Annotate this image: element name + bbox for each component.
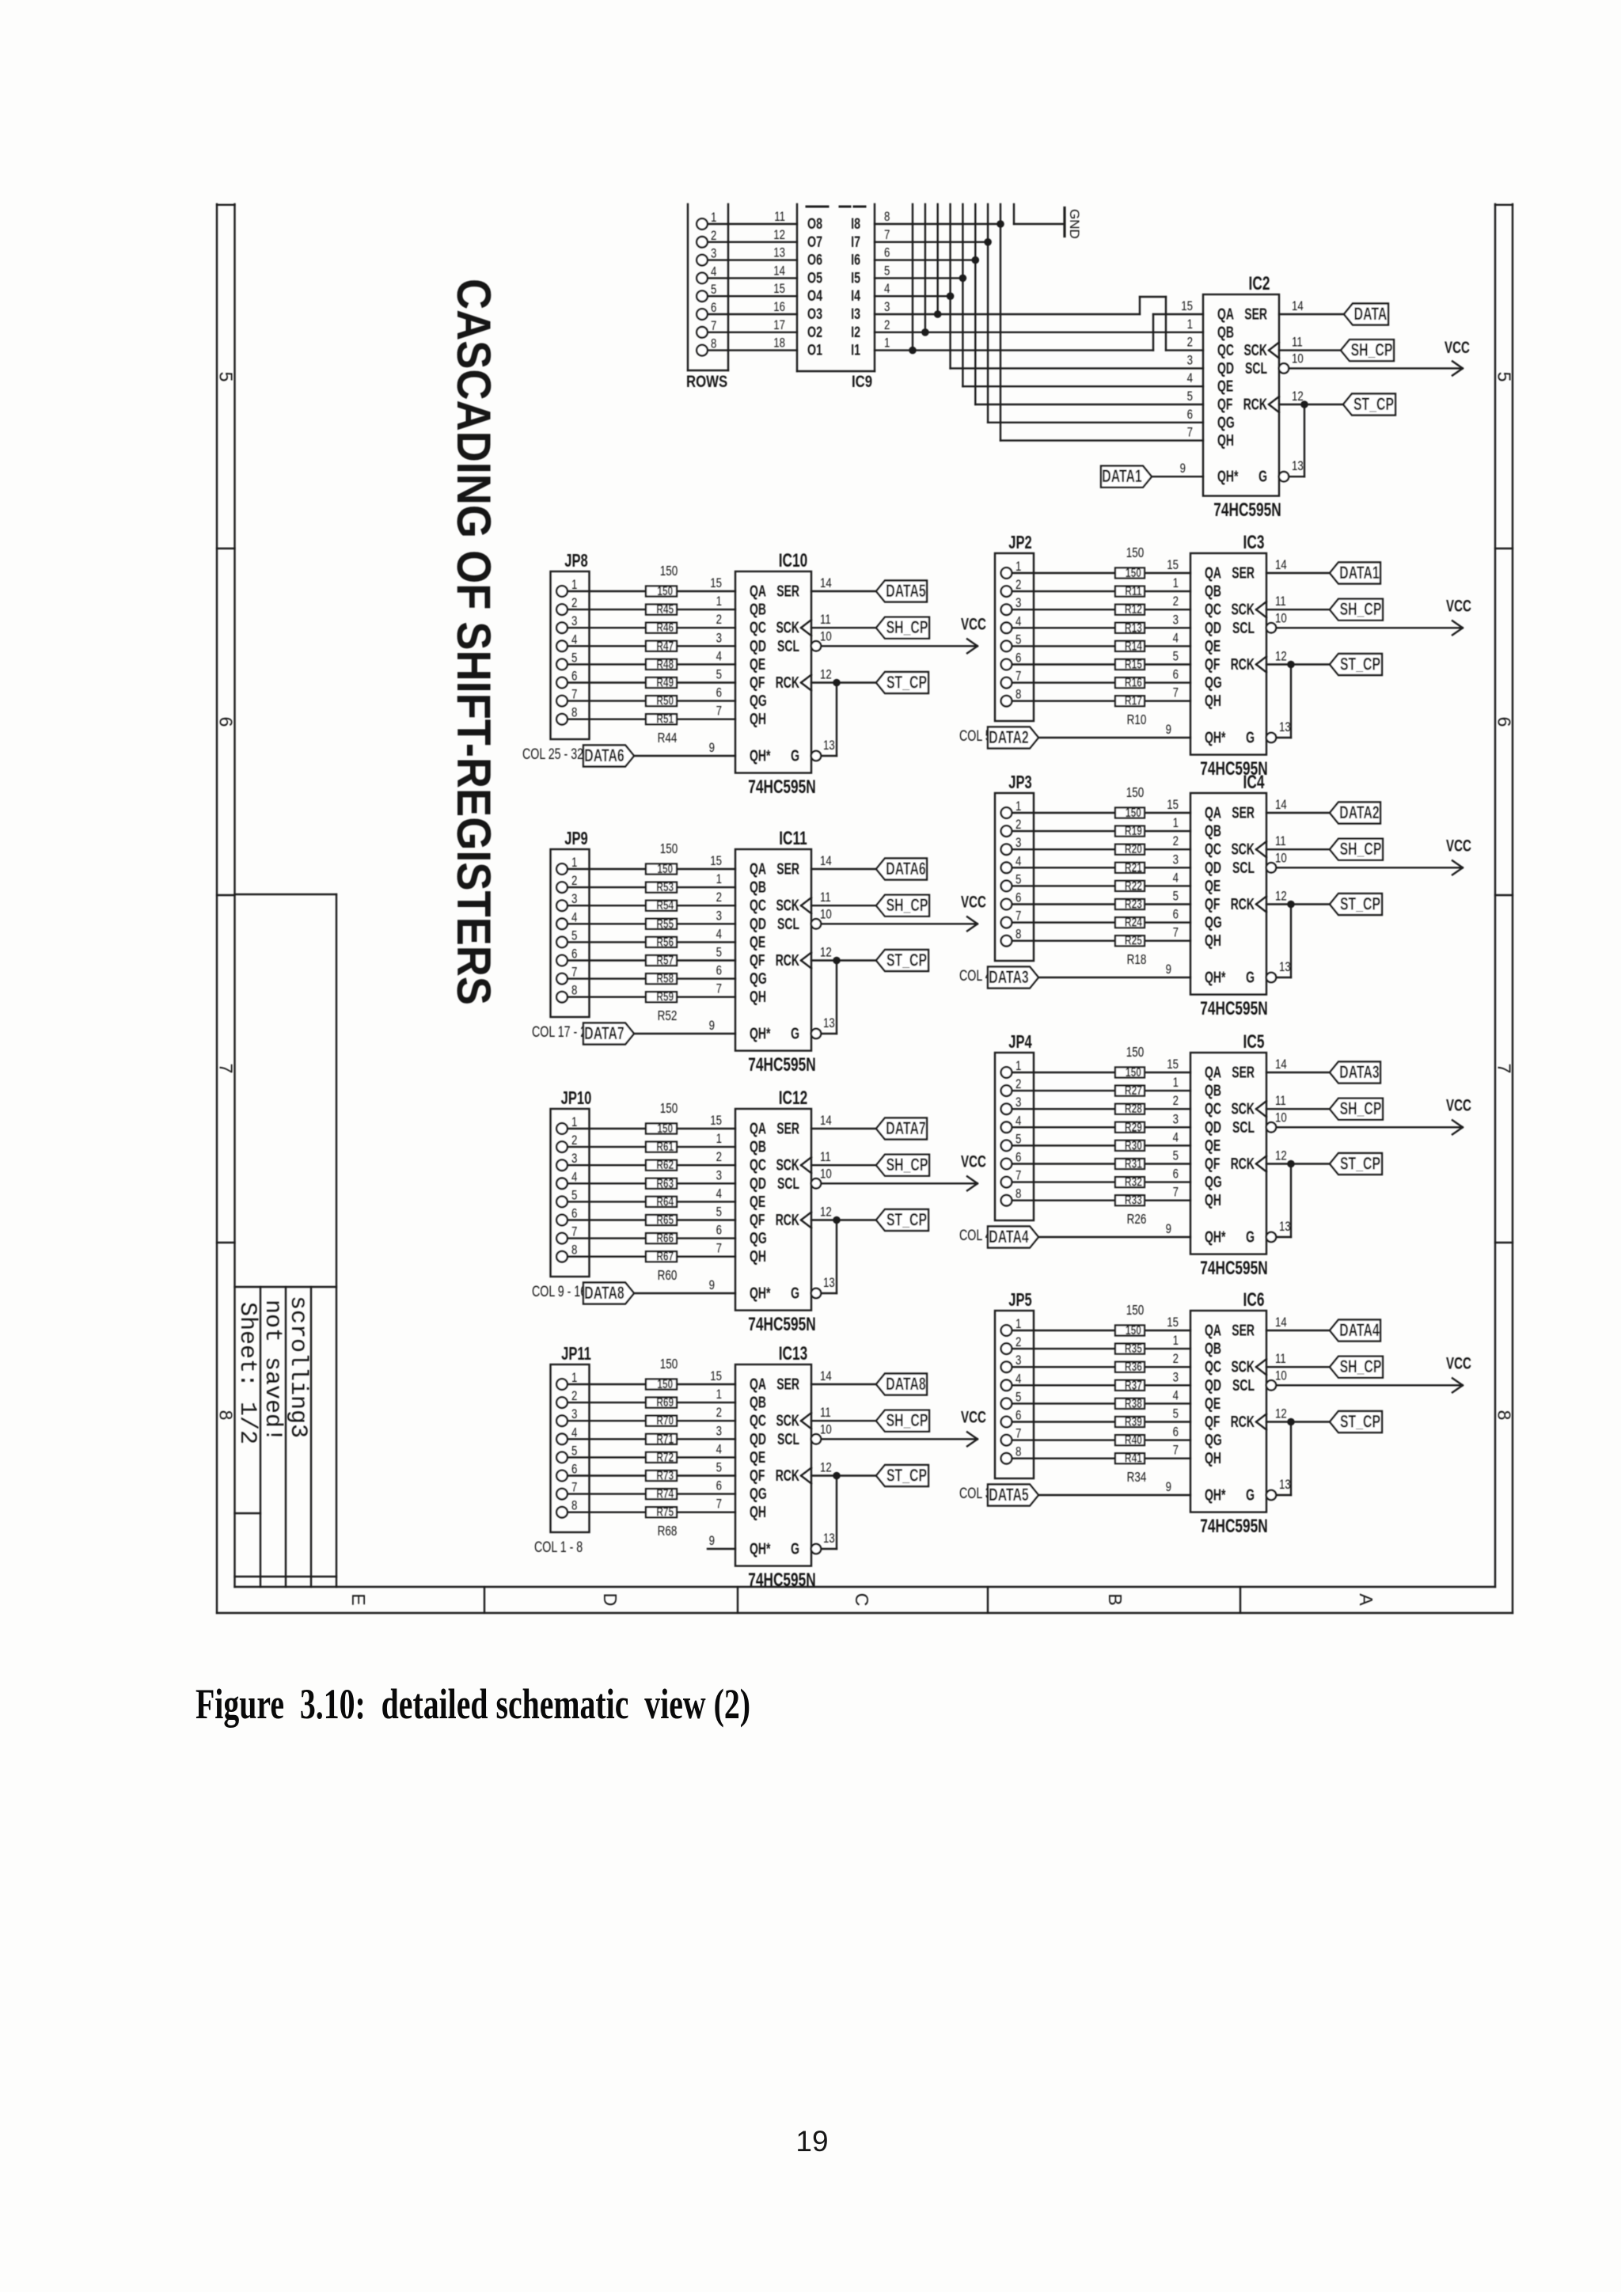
svg-text:1: 1 <box>716 872 722 887</box>
wire IC11 pin12 to pin13 G <box>811 961 837 1039</box>
label COL 17 - 24 <box>532 1023 593 1040</box>
svg-text:QE: QE <box>750 1448 765 1466</box>
wire IC5.SER to DATA3 <box>1266 1057 1330 1072</box>
svg-text:R75: R75 <box>656 1505 674 1519</box>
wire JP9.6 to IC11 input 6 <box>568 959 735 961</box>
svg-text:18: 18 <box>773 336 785 351</box>
wire IC9 pin2 net row2 to IC2.QB <box>875 332 1203 333</box>
svg-text:6: 6 <box>1015 1150 1021 1165</box>
svg-text:15: 15 <box>1181 299 1193 314</box>
svg-text:SH_CP: SH_CP <box>1340 1358 1382 1377</box>
svg-text:R55: R55 <box>656 917 674 931</box>
svg-text:14: 14 <box>820 576 832 591</box>
svg-text:R47: R47 <box>656 639 674 653</box>
svg-text:R48: R48 <box>656 657 674 671</box>
svg-text:R71: R71 <box>656 1432 674 1446</box>
resistor R69 <box>646 1395 677 1409</box>
svg-text:5: 5 <box>884 264 890 279</box>
svg-text:4: 4 <box>716 649 723 664</box>
svg-text:3: 3 <box>711 246 716 261</box>
flag SH_CP IC6 <box>1330 1357 1383 1378</box>
wire IC13 pin12 to pin13 G <box>811 1476 837 1554</box>
flag SH_CP IC12 <box>876 1155 929 1176</box>
wire JP11.2 to IC13 input 2 <box>568 1402 735 1403</box>
wire vertical bus row3 <box>936 204 938 314</box>
svg-text:6: 6 <box>711 301 716 316</box>
svg-text:scrolling3: scrolling3 <box>284 1296 311 1438</box>
resistor R60 <box>646 1121 677 1135</box>
wire vertical bus row2 <box>924 204 926 332</box>
svg-text:2: 2 <box>1015 578 1021 593</box>
flag SH_CP <box>1341 340 1394 361</box>
wire IC9 pin8 net row8 <box>875 223 1000 225</box>
wire JP4.1 to IC5 input 1 <box>1012 1072 1191 1073</box>
svg-text:150: 150 <box>1126 565 1141 579</box>
svg-text:G: G <box>791 1539 799 1558</box>
svg-text:9: 9 <box>709 1534 715 1549</box>
svg-text:QA: QA <box>1205 564 1221 582</box>
svg-text:2: 2 <box>716 890 722 905</box>
wire IC2.SCL pin10 to VCC <box>1279 351 1461 374</box>
svg-text:4: 4 <box>711 264 717 279</box>
resistor R13 <box>1115 620 1145 635</box>
flag DATA5 <box>876 581 927 602</box>
svg-text:R19: R19 <box>1125 823 1142 837</box>
wire IC10 pin12 to pin13 G <box>811 683 837 761</box>
svg-text:6: 6 <box>1015 651 1021 666</box>
svg-text:6: 6 <box>716 1223 722 1238</box>
svg-text:5: 5 <box>716 1205 722 1220</box>
svg-text:I3: I3 <box>851 306 860 322</box>
svg-text:6: 6 <box>571 947 577 962</box>
junction IC6 pin12 <box>1287 1418 1295 1426</box>
svg-text:5: 5 <box>1173 1148 1179 1163</box>
wire JP9.8 to IC11 input 8 <box>568 996 735 997</box>
wire JP4.4 to IC5 input 4 <box>1012 1126 1191 1128</box>
svg-text:2: 2 <box>1015 1335 1021 1350</box>
svg-text:R58: R58 <box>656 971 674 985</box>
frame column label A <box>1356 1593 1376 1606</box>
svg-text:1: 1 <box>1173 576 1179 591</box>
flag ST_CP IC11 <box>876 950 928 971</box>
svg-text:QE: QE <box>750 655 765 673</box>
resistor R54 <box>646 898 677 912</box>
svg-text:DATA4: DATA4 <box>1339 1322 1380 1341</box>
wire JP11.3 to IC13 input 3 <box>568 1420 735 1421</box>
svg-text:ST_CP: ST_CP <box>1340 1155 1380 1174</box>
svg-text:150: 150 <box>660 1101 678 1116</box>
resistor R10 <box>1115 565 1145 579</box>
ic IC5 74HC595N <box>1166 1031 1268 1278</box>
svg-text:1: 1 <box>571 1371 577 1386</box>
wire IC6.SER to DATA4 <box>1266 1315 1330 1330</box>
ic IC10 74HC595N <box>709 550 816 797</box>
flag ST_CP IC12 <box>876 1209 928 1231</box>
resistor R51 <box>646 712 677 726</box>
svg-text:2: 2 <box>716 613 722 628</box>
svg-text:8: 8 <box>571 983 577 998</box>
connector JP10 <box>551 1088 592 1277</box>
svg-text:R35: R35 <box>1125 1341 1142 1355</box>
svg-text:6: 6 <box>1015 1408 1021 1423</box>
svg-text:R27: R27 <box>1125 1083 1142 1097</box>
svg-text:R38: R38 <box>1125 1396 1142 1410</box>
svg-text:14: 14 <box>1275 1057 1287 1072</box>
svg-text:SH_CP: SH_CP <box>1340 841 1382 860</box>
svg-text:R29: R29 <box>1125 1120 1142 1134</box>
svg-text:7: 7 <box>1173 1185 1179 1200</box>
frame inner border <box>235 204 1496 1587</box>
resistor R44 <box>646 583 677 598</box>
resistor R59 <box>646 989 677 1004</box>
svg-text:11: 11 <box>774 210 785 225</box>
resistor R17 <box>1115 693 1145 708</box>
svg-text:2: 2 <box>1173 1094 1179 1109</box>
svg-text:8: 8 <box>571 1243 577 1258</box>
svg-text:SH_CP: SH_CP <box>886 897 928 916</box>
svg-text:G: G <box>791 1024 799 1042</box>
svg-text:QH: QH <box>750 1247 766 1266</box>
resistor R57 <box>646 953 677 967</box>
label resistor network value 150 <box>1126 1303 1145 1318</box>
svg-text:R60: R60 <box>658 1268 678 1283</box>
wire JP11.4 to IC13 input 4 <box>568 1438 735 1440</box>
svg-text:R39: R39 <box>1125 1414 1142 1429</box>
svg-text:R68: R68 <box>658 1524 678 1539</box>
svg-text:9: 9 <box>1180 461 1186 476</box>
resistor R27 <box>1115 1083 1145 1097</box>
svg-text:5: 5 <box>216 372 237 382</box>
svg-text:JP5: JP5 <box>1008 1290 1031 1310</box>
svg-text:R51: R51 <box>656 712 674 726</box>
svg-text:SCL: SCL <box>777 1429 799 1448</box>
svg-text:QA: QA <box>750 1119 766 1137</box>
junction IC13 pin12 <box>833 1472 841 1480</box>
junction row6 <box>972 256 980 264</box>
resistor R22 <box>1115 879 1145 893</box>
svg-text:QD: QD <box>750 914 766 932</box>
svg-text:SCK: SCK <box>776 618 799 636</box>
resistor R67 <box>646 1249 677 1263</box>
wire JP8.4 to IC10 input 4 <box>568 645 735 647</box>
svg-text:74HC595N: 74HC595N <box>748 776 815 797</box>
resistor R71 <box>646 1432 677 1446</box>
svg-text:ST_CP: ST_CP <box>1340 895 1380 914</box>
ic IC11 74HC595N <box>709 828 816 1075</box>
svg-text:DATA1: DATA1 <box>1339 564 1380 583</box>
svg-text:QE: QE <box>750 1192 765 1210</box>
svg-text:1: 1 <box>1015 560 1021 575</box>
junction row3 <box>934 310 942 318</box>
svg-text:DATA7: DATA7 <box>584 1025 624 1044</box>
svg-text:R12: R12 <box>1125 602 1142 616</box>
svg-text:4: 4 <box>1015 614 1022 629</box>
svg-text:QE: QE <box>750 932 765 951</box>
svg-text:I6: I6 <box>851 252 860 268</box>
svg-text:150: 150 <box>657 583 673 598</box>
frame column label C <box>852 1593 872 1607</box>
wire JP8.7 to IC10 input 7 <box>568 700 735 701</box>
wire IC6.SCL pin10 to VCC <box>1266 1368 1461 1391</box>
svg-text:R62: R62 <box>656 1157 674 1171</box>
svg-text:R44: R44 <box>658 731 678 746</box>
resistor R47 <box>646 639 677 653</box>
svg-text:QF: QF <box>750 1210 765 1228</box>
svg-text:8: 8 <box>1015 687 1021 702</box>
svg-text:QF: QF <box>1205 894 1220 913</box>
svg-text:8: 8 <box>1015 1186 1021 1201</box>
svg-text:QB: QB <box>1205 1081 1221 1099</box>
connector JP8 <box>551 551 590 739</box>
svg-text:2: 2 <box>1173 594 1179 609</box>
svg-text:150: 150 <box>1126 545 1145 560</box>
flag SH_CP IC5 <box>1330 1099 1383 1120</box>
svg-text:11: 11 <box>1275 594 1286 609</box>
wire DATA2 to IC3.QH* <box>1038 737 1190 738</box>
svg-text:R16: R16 <box>1125 675 1142 689</box>
svg-text:QB: QB <box>1205 582 1221 600</box>
flag DATA2 <box>1330 803 1380 824</box>
svg-text:9: 9 <box>709 1019 715 1034</box>
svg-text:150: 150 <box>1126 805 1141 819</box>
wire IC9 pin4 net row4 <box>875 295 951 297</box>
resistor R31 <box>1115 1156 1145 1171</box>
svg-text:I5: I5 <box>851 269 860 286</box>
svg-text:3: 3 <box>571 614 577 629</box>
ic IC3 74HC595N <box>1166 532 1268 779</box>
svg-text:13: 13 <box>823 1531 835 1546</box>
resistor R58 <box>646 971 677 985</box>
wire JP10.3 to IC12 input 3 <box>568 1164 735 1166</box>
svg-text:QF: QF <box>750 951 765 969</box>
svg-text:5: 5 <box>1015 632 1021 647</box>
wire IC6 pin12 to pin13 G <box>1266 1422 1291 1501</box>
svg-text:SCL: SCL <box>777 636 799 655</box>
svg-text:JP10: JP10 <box>561 1088 592 1108</box>
wire DATA7 to IC11.QH* <box>634 1033 735 1034</box>
svg-text:6: 6 <box>1187 407 1193 422</box>
resistor R35 <box>1115 1341 1145 1355</box>
svg-text:QD: QD <box>1205 618 1221 636</box>
svg-text:R34: R34 <box>1127 1470 1147 1485</box>
svg-text:COL 1 - 8: COL 1 - 8 <box>534 1539 583 1555</box>
svg-text:QC: QC <box>750 1411 766 1429</box>
flag DATA4 <box>988 1227 1038 1248</box>
svg-text:14: 14 <box>820 854 832 869</box>
wire JP5.4 to IC6 input 4 <box>1012 1384 1191 1386</box>
wire JP4.5 to IC5 input 5 <box>1012 1144 1191 1146</box>
svg-text:R22: R22 <box>1125 879 1142 893</box>
wire JP4.8 to IC5 input 8 <box>1012 1199 1191 1201</box>
wire JP8.6 to IC10 input 6 <box>568 681 735 683</box>
frame row label 8 left <box>216 1410 237 1421</box>
svg-text:QA: QA <box>750 860 766 878</box>
wire JP3.7 to IC4 input 7 <box>1012 921 1191 923</box>
svg-text:SCK: SCK <box>1231 1357 1255 1376</box>
label resistor network name R68 <box>658 1524 678 1539</box>
svg-text:SCL: SCL <box>1232 1376 1255 1394</box>
svg-text:6: 6 <box>1015 890 1021 905</box>
resistor R29 <box>1115 1120 1145 1134</box>
svg-text:G: G <box>1246 1228 1255 1246</box>
svg-text:R52: R52 <box>658 1008 678 1023</box>
wire IC2.RCK to ST_CP <box>1279 389 1343 404</box>
svg-text:O3: O3 <box>807 306 822 322</box>
resistor R39 <box>1115 1414 1145 1429</box>
svg-text:IC6: IC6 <box>1243 1289 1265 1310</box>
svg-text:5: 5 <box>571 928 577 943</box>
junction row2 <box>921 328 929 336</box>
svg-text:14: 14 <box>773 264 785 279</box>
svg-text:10: 10 <box>1275 1110 1287 1125</box>
svg-text:10: 10 <box>820 1422 832 1437</box>
svg-text:8: 8 <box>711 336 716 351</box>
svg-text:3: 3 <box>1173 852 1179 867</box>
svg-text:9: 9 <box>1166 1480 1171 1495</box>
svg-text:11: 11 <box>820 890 831 905</box>
svg-text:DATA4: DATA4 <box>989 1228 1029 1247</box>
resistor R70 <box>646 1413 677 1427</box>
svg-text:SER: SER <box>1232 1321 1255 1339</box>
svg-text:8: 8 <box>571 705 577 720</box>
svg-text:3: 3 <box>571 1152 577 1167</box>
frame row label 6 right <box>1494 717 1515 727</box>
resistor R36 <box>1115 1359 1145 1373</box>
svg-text:R57: R57 <box>656 953 674 967</box>
svg-text:7: 7 <box>216 1064 237 1074</box>
svg-text:QG: QG <box>1217 413 1235 431</box>
wire stub IC13.QH* pin9 <box>708 1548 735 1550</box>
svg-text:R23: R23 <box>1125 897 1142 911</box>
svg-text:15: 15 <box>710 854 722 869</box>
resistor R15 <box>1115 657 1145 671</box>
svg-text:5: 5 <box>716 667 722 682</box>
label COL 25 - 32 <box>522 746 583 762</box>
wire vertical bus row5 to IC2 pin 4 <box>962 204 1203 386</box>
svg-text:DATA3: DATA3 <box>1339 1064 1379 1083</box>
wire JP2.3 to IC3 input 3 <box>1012 609 1191 610</box>
svg-text:RCK: RCK <box>1243 395 1268 413</box>
svg-text:13: 13 <box>773 245 785 260</box>
svg-text:12: 12 <box>820 945 832 960</box>
wire JP2.7 to IC3 input 7 <box>1012 681 1191 683</box>
svg-text:5: 5 <box>1187 389 1193 404</box>
svg-text:SCK: SCK <box>1231 840 1255 858</box>
resistor R74 <box>646 1486 677 1501</box>
svg-text:QF: QF <box>750 1466 765 1484</box>
svg-text:74HC595N: 74HC595N <box>1213 499 1281 520</box>
svg-text:QD: QD <box>750 1429 766 1448</box>
flag DATA8 <box>876 1374 927 1395</box>
junction IC11 pin12 <box>833 957 841 965</box>
wire IC13.RCK to ST_CP <box>811 1460 876 1475</box>
svg-text:4: 4 <box>1173 631 1179 646</box>
svg-text:VCC: VCC <box>961 892 986 911</box>
label resistor network value 150 <box>1126 545 1145 560</box>
svg-text:5: 5 <box>1173 889 1179 904</box>
svg-text:VCC: VCC <box>1446 836 1471 855</box>
wire JP5.5 to IC6 input 5 <box>1012 1402 1191 1404</box>
wire IC9 pin7 net row7 <box>875 241 988 243</box>
svg-text:SER: SER <box>776 1375 799 1393</box>
resistor R63 <box>646 1176 677 1190</box>
wire IC9 pin1 net row1 to IC2.QA with jog <box>875 314 1203 351</box>
svg-text:QF: QF <box>1205 1412 1220 1430</box>
wire IC9 pin3 net row3 to IC2.QC with jog <box>875 297 1203 351</box>
wire JP8.5 to IC10 input 5 <box>568 663 735 665</box>
svg-text:3: 3 <box>1187 353 1193 368</box>
wire JP2.1 to IC3 input 1 <box>1012 572 1191 574</box>
svg-text:6: 6 <box>1173 1425 1179 1440</box>
wire IC4.RCK to ST_CP <box>1266 889 1330 904</box>
svg-text:1: 1 <box>571 1115 577 1130</box>
svg-text:74HC595N: 74HC595N <box>1200 998 1267 1019</box>
svg-text:QG: QG <box>1205 674 1222 692</box>
svg-text:6: 6 <box>1173 667 1179 682</box>
svg-text:R74: R74 <box>656 1486 674 1501</box>
wire JP3.6 to IC4 input 6 <box>1012 903 1191 905</box>
svg-text:10: 10 <box>1292 351 1304 366</box>
label COL 49 - 56 <box>959 967 1020 984</box>
flag DATA2 <box>988 727 1038 749</box>
svg-text:4: 4 <box>716 927 723 942</box>
svg-text:10: 10 <box>820 629 832 644</box>
wire IC3.SCK to SH_CP <box>1266 594 1330 609</box>
svg-text:3: 3 <box>1173 1112 1179 1127</box>
connector JP2 <box>995 533 1034 721</box>
svg-text:JP11: JP11 <box>561 1344 591 1364</box>
svg-text:4: 4 <box>571 1170 578 1185</box>
svg-text:R65: R65 <box>656 1213 674 1227</box>
svg-text:D: D <box>600 1593 621 1607</box>
wire vertical bus row8 to IC2 pin 7 <box>1000 204 1203 441</box>
svg-text:R33: R33 <box>1125 1193 1142 1207</box>
svg-text:5: 5 <box>1173 1406 1179 1421</box>
svg-text:5: 5 <box>1015 872 1021 887</box>
svg-text:150: 150 <box>660 1357 678 1372</box>
svg-text:QB: QB <box>1217 323 1234 341</box>
resistor R56 <box>646 935 677 949</box>
svg-text:1: 1 <box>716 1387 722 1402</box>
svg-text:2: 2 <box>571 874 577 889</box>
svg-text:1: 1 <box>1015 799 1021 814</box>
svg-text:R26: R26 <box>1127 1212 1147 1227</box>
svg-text:17: 17 <box>773 317 785 332</box>
svg-text:150: 150 <box>1126 785 1145 800</box>
wire IC10.SER to DATA5 <box>811 576 876 591</box>
svg-text:not saved!: not saved! <box>259 1300 286 1442</box>
svg-text:DATA7: DATA7 <box>886 1120 925 1139</box>
svg-text:R40: R40 <box>1125 1433 1142 1447</box>
svg-text:1: 1 <box>1173 1076 1179 1091</box>
wire JP9.3 to IC11 input 3 <box>568 905 735 906</box>
svg-text:4: 4 <box>1173 1388 1179 1403</box>
wire IC5.RCK to ST_CP <box>1266 1148 1330 1163</box>
svg-text:5: 5 <box>716 945 722 960</box>
flag SH_CP IC3 <box>1330 599 1383 620</box>
resistor R19 <box>1115 823 1145 837</box>
resistor R41 <box>1115 1451 1145 1465</box>
connector JP5 <box>995 1290 1034 1478</box>
svg-text:QG: QG <box>1205 913 1222 932</box>
svg-text:G: G <box>1246 1486 1255 1504</box>
wire IC3.SCL pin10 to VCC <box>1266 611 1461 633</box>
svg-text:74HC595N: 74HC595N <box>748 1054 815 1075</box>
svg-text:9: 9 <box>709 741 715 756</box>
wire IC12.SCL pin10 to VCC <box>811 1167 976 1189</box>
svg-text:QG: QG <box>750 692 767 710</box>
title block text scrolling3 <box>284 1296 311 1438</box>
